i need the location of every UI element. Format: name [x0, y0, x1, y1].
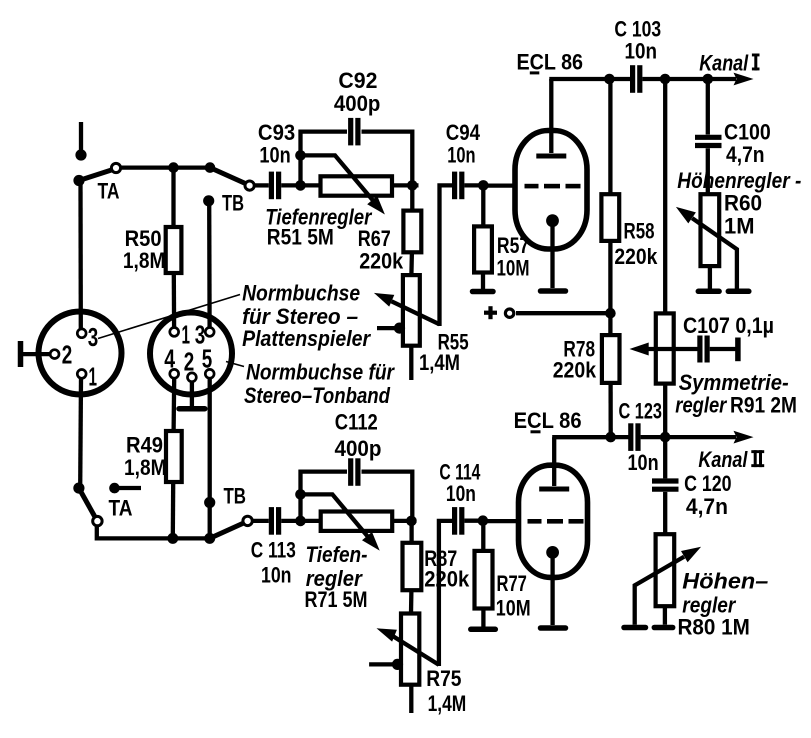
wire R50 to DIN2 pin1: [172, 273, 177, 327]
svg-text:R51 5M: R51 5M: [267, 225, 334, 250]
svg-text:10n: 10n: [261, 562, 292, 587]
node R78 bottom junction: [605, 432, 616, 443]
wire C107 right lead: [710, 347, 736, 351]
wire tap vertical to C114 corner: [439, 521, 454, 666]
ground R80 element: [654, 625, 672, 631]
svg-text:1,8M: 1,8M: [123, 248, 165, 273]
wire U1 anode lead: [549, 79, 553, 153]
wire S2b contact to C113: [252, 519, 269, 523]
capacitor C92: [351, 118, 358, 145]
svg-text:regler: regler: [675, 392, 727, 417]
svg-text:10n: 10n: [625, 39, 658, 64]
wire R55 wiper diagonal: [392, 301, 440, 324]
potentiometer R75 box: [401, 614, 419, 685]
svg-text:C92: C92: [338, 68, 377, 93]
capacitor C103: [633, 65, 640, 93]
wire R55 bottom lead: [409, 346, 413, 380]
wire R75 bottom lead: [409, 685, 413, 713]
wire R71 wiper: [304, 494, 368, 536]
wire switch arm S2a: [79, 488, 95, 517]
wire U1 grid dashes: [525, 184, 581, 189]
svg-text:Höhen–: Höhen–: [682, 569, 768, 594]
svg-text:ECL 86: ECL 86: [514, 408, 582, 433]
svg-text:Normbuchse: Normbuchse: [242, 281, 360, 306]
tube ECL86 U1 envelope: [515, 131, 587, 250]
wire R50 branch upper: [171, 168, 175, 227]
wire DIN2 pin4 to R49: [171, 378, 176, 431]
svg-text:TB: TB: [224, 484, 247, 509]
wire C92 top left: [299, 129, 348, 133]
svg-text:220k: 220k: [424, 567, 470, 592]
node S2a pivot dot: [73, 483, 84, 494]
wire bus to C123: [611, 435, 629, 439]
wire TB contact to DIN2 pin3: [207, 201, 212, 327]
arrow Kanal I: [734, 73, 754, 86]
svg-text:R67: R67: [358, 226, 391, 251]
wire node D to R87: [409, 521, 413, 543]
wire C112 top right: [362, 472, 413, 519]
arrow Kanal II: [734, 431, 754, 444]
node R91 line top: [660, 74, 671, 85]
svg-text:4,7n: 4,7n: [726, 142, 765, 167]
svg-text:1M: 1M: [724, 213, 755, 238]
ground R60 wiper: [728, 289, 749, 295]
svg-text:400p: 400p: [334, 91, 381, 116]
wire R80 wiper diagonal: [635, 557, 684, 625]
wire tap vertical to C94 corner: [440, 185, 454, 326]
wire grid node to R57: [481, 185, 485, 226]
node S2a contact circle: [93, 516, 102, 525]
potentiometer R51 box: [321, 176, 393, 195]
node DIN1 pin 3: [77, 329, 86, 338]
svg-text:1: 1: [182, 320, 191, 350]
svg-text:Stereo–Tonband: Stereo–Tonband: [244, 383, 391, 408]
wire main through R71 right: [392, 519, 417, 523]
resistor R67: [403, 211, 421, 253]
node R75 stub dot: [392, 659, 403, 670]
ground R80 wiper: [624, 625, 646, 631]
svg-text:220k: 220k: [614, 244, 658, 269]
svg-text:2: 2: [184, 346, 195, 376]
wire S1b contact to C93: [254, 183, 268, 187]
node R71 wiper tap: [295, 489, 306, 500]
svg-text:10M: 10M: [496, 596, 531, 621]
potentiometer R71 box: [321, 512, 393, 531]
wire TA arm to DIN1 pin3: [78, 180, 83, 329]
svg-text:Normbuchse für: Normbuchse für: [246, 360, 395, 385]
svg-text:3: 3: [88, 322, 99, 352]
svg-text:10n: 10n: [446, 481, 476, 506]
wire DIN2 pin5 down: [208, 378, 212, 538]
wire C100 upper lead: [706, 79, 710, 135]
svg-text:R60: R60: [724, 191, 762, 216]
wire switch arm S2b: [210, 523, 245, 539]
wire C120 upper lead: [663, 437, 667, 478]
node C main wire: [295, 516, 306, 527]
node D R71 output: [406, 516, 417, 527]
wire R58 upper lead: [608, 79, 612, 194]
ground DIN2: [179, 406, 205, 412]
tube ECL86 U2 envelope: [519, 465, 588, 577]
potentiometer R91 box: [656, 313, 674, 383]
node DIN2 pin 3: [205, 328, 214, 337]
svg-text:10n: 10n: [259, 143, 290, 168]
wire R77 to ground: [481, 609, 485, 627]
wire Kanal I lead: [708, 77, 736, 81]
wire top bus to C103: [609, 77, 631, 81]
wire main through R51 left: [301, 183, 322, 187]
svg-text:10M: 10M: [497, 255, 530, 280]
resistor R49: [166, 431, 182, 482]
resistor R87: [403, 543, 422, 590]
node grid tube2: [478, 515, 489, 526]
wire U1 anode bar: [536, 154, 566, 159]
node TB lower contact: [204, 497, 215, 508]
node DIN2 pin 1: [170, 328, 179, 337]
label ECL86 U2 C underline: [531, 430, 541, 433]
capacitor C113: [271, 507, 278, 535]
wire TA lower stub: [115, 486, 142, 490]
svg-text:1,4M: 1,4M: [428, 691, 467, 716]
node TA lower contact: [109, 483, 120, 494]
svg-text:10n: 10n: [628, 450, 659, 475]
svg-text:C100: C100: [724, 120, 771, 145]
svg-text:220k: 220k: [553, 357, 597, 382]
wire U2 anode lead: [552, 437, 556, 486]
node DIN2 pin 2: [188, 373, 197, 382]
node DIN1 pin 1: [77, 370, 86, 379]
ground U1 cathode: [541, 288, 566, 294]
wire TA upper stub: [79, 122, 83, 152]
svg-text:R49: R49: [126, 432, 163, 457]
capacitor C93: [271, 172, 278, 200]
wire DIN1 pin1 down: [78, 378, 83, 487]
wire C103 to Kanal I node: [642, 77, 707, 81]
svg-text:1: 1: [89, 362, 98, 392]
arrow R91 wiper head: [630, 343, 649, 356]
svg-text:ECL 86: ECL 86: [517, 50, 584, 75]
wire R87 to R75: [409, 590, 414, 613]
node grid tube1: [478, 180, 489, 191]
wire top bus channel 1: [121, 165, 210, 169]
arrow R75 wiper head: [377, 628, 397, 641]
wire plus terminal to junction: [516, 311, 610, 315]
arrow R60 wiper head: [676, 207, 696, 224]
wire R58 lower lead: [608, 241, 612, 335]
node S1a contact circle: [111, 163, 120, 172]
terminal C107 T-bar: [735, 338, 741, 362]
wire input to pin2: [22, 352, 50, 356]
wire grid node to R77: [481, 521, 485, 551]
node B R51 output: [407, 180, 418, 191]
label Kanal II numeral: [751, 450, 764, 467]
arrow R80 wiper head: [681, 547, 701, 562]
terminal input T-bar: [18, 341, 24, 367]
node R58 top junction: [604, 74, 615, 85]
node plus terminal circle: [505, 309, 513, 317]
node junction R50 top: [168, 162, 179, 173]
wire C112 left branch: [298, 470, 302, 521]
wire R60 wiper diagonal: [692, 218, 737, 288]
wire grid node to tube2: [483, 519, 520, 523]
wire U1 cathode lead: [550, 221, 554, 288]
capacitor C94: [455, 172, 462, 200]
wire R80 bottom stub: [663, 606, 667, 625]
wire U2 grid dashes: [528, 519, 584, 524]
wire C120 lower lead: [663, 492, 667, 534]
wire node B to R67: [410, 185, 414, 210]
potentiometer R80 box: [656, 534, 675, 606]
node U1 cathode: [546, 214, 559, 227]
ground R77: [471, 627, 496, 633]
capacitor C114: [455, 507, 462, 535]
wire grid node to tube1: [483, 183, 517, 187]
node U2 cathode: [546, 546, 559, 559]
svg-text:400p: 400p: [335, 436, 382, 461]
node DIN2 pin 5: [205, 369, 214, 378]
resistor R50: [166, 227, 182, 273]
resistor R78: [602, 335, 620, 383]
wire R49 to bottom bus: [171, 482, 176, 538]
wire main through R71 left: [301, 519, 322, 523]
svg-text:R75: R75: [426, 666, 461, 691]
wire DIN2 pin2 to ground: [190, 382, 194, 406]
ground R60 element: [698, 289, 719, 295]
svg-text:1,4M: 1,4M: [419, 350, 460, 375]
wire C100 lower lead: [706, 148, 710, 194]
svg-text:TA: TA: [98, 179, 120, 204]
wire R60 bottom stub: [708, 266, 712, 288]
wire C93 to node A: [281, 183, 300, 187]
wire R91 wiper to C107: [648, 347, 698, 351]
wire C92 left branch: [298, 130, 302, 186]
wire U2 anode bar: [539, 487, 569, 492]
node A main wire: [295, 180, 306, 191]
wire C112 top left: [299, 469, 348, 473]
svg-text:R80 1M: R80 1M: [678, 614, 750, 639]
wire R78 lower lead: [608, 383, 612, 437]
capacitor C107: [700, 336, 707, 363]
node R55 stub dot: [394, 323, 405, 334]
ground U2 cathode: [541, 625, 566, 631]
wire R51 wiper: [304, 155, 373, 200]
arrow R55 wiper head: [374, 293, 394, 307]
resistor R57: [474, 226, 492, 272]
potentiometer R60 box: [701, 194, 720, 266]
label ECL86 U1 C underline: [530, 71, 540, 74]
wire R75 wiper diagonal: [394, 637, 439, 665]
svg-text:Kanal: Kanal: [699, 50, 749, 75]
node TA upper contact: [75, 149, 86, 160]
connector DIN2 circle: [150, 313, 232, 395]
arrow R71 wiper head: [362, 532, 380, 551]
svg-text:4: 4: [164, 343, 175, 373]
svg-text:C 123: C 123: [619, 398, 663, 423]
capacitor C100: [695, 137, 722, 145]
svg-text:R77: R77: [497, 571, 527, 596]
wire C123 to Kanal II node: [641, 435, 736, 439]
node C100 tap: [703, 74, 714, 85]
wire C92 top right: [362, 132, 413, 183]
svg-text:Tiefen-: Tiefen-: [306, 542, 368, 567]
node junction S1b arm: [205, 162, 216, 173]
svg-text:Höhenregler -: Höhenregler -: [677, 168, 801, 193]
node TB upper contact: [203, 195, 214, 206]
wire R91 line lower: [663, 384, 667, 438]
wire main through R51 right: [392, 183, 419, 187]
svg-text:C107 0,1µ: C107 0,1µ: [683, 313, 774, 338]
svg-text:R91 2M: R91 2M: [730, 392, 797, 417]
svg-text:2: 2: [62, 340, 72, 370]
wire annotation line to Normbuchse: [98, 295, 240, 339]
potentiometer R55 box: [403, 275, 420, 346]
capacitor C120: [652, 481, 679, 489]
wire R67 to R55: [409, 252, 414, 275]
capacitor C112: [351, 458, 358, 486]
wire switch arm S1a: [79, 170, 113, 181]
node junction R49 bottom: [167, 533, 178, 544]
node C120 tap: [660, 432, 671, 443]
wire R55 left stub: [377, 326, 398, 330]
wire C94 to grid node: [464, 183, 483, 187]
node S1b contact circle: [245, 181, 254, 190]
connector DIN1 circle: [39, 312, 122, 395]
node DIN2 pin 4: [170, 369, 179, 378]
resistor R77: [475, 551, 493, 609]
wire switch arm S1b: [210, 168, 247, 184]
ground R57: [473, 289, 494, 295]
svg-text:5: 5: [202, 343, 213, 373]
capacitor C123: [631, 423, 638, 451]
svg-text:C112: C112: [335, 410, 378, 435]
resistor R58: [601, 194, 619, 241]
label plus: [484, 306, 497, 319]
wire U2 cathode lead: [550, 552, 554, 625]
wire U1 anode to top bus: [549, 77, 609, 81]
svg-text:C94: C94: [446, 120, 481, 145]
svg-text:220k: 220k: [359, 248, 404, 273]
wire bottom bus channel 2: [97, 526, 210, 539]
wire R75 left stub: [369, 662, 396, 666]
svg-text:Plattenspieler: Plattenspieler: [242, 326, 371, 351]
svg-text:Symmetrie-: Symmetrie-: [679, 370, 789, 395]
node plus supply junction: [605, 308, 616, 319]
svg-text:TB: TB: [222, 191, 244, 216]
wire R57 to ground: [481, 273, 485, 290]
label Kanal I numeral: [752, 54, 760, 71]
svg-text:C 120: C 120: [684, 471, 732, 496]
wire annotation line to Normbuchse fuer: [226, 362, 244, 367]
svg-text:R71 5M: R71 5M: [305, 587, 368, 612]
wire C114 to grid node: [464, 519, 483, 523]
svg-text:C 113: C 113: [251, 537, 296, 562]
svg-text:C93: C93: [258, 120, 295, 145]
node S1a pivot dot: [73, 175, 84, 186]
svg-text:R58: R58: [624, 219, 655, 244]
node junction S2b arm: [204, 533, 215, 544]
wire C113 to node C: [281, 519, 300, 523]
wire R91 line upper: [663, 79, 667, 313]
svg-text:10n: 10n: [447, 143, 475, 168]
svg-text:1,8M: 1,8M: [124, 455, 167, 480]
node DIN1 pin 2: [50, 350, 59, 359]
svg-text:4,7n: 4,7n: [686, 494, 728, 519]
arrow R51 wiper head: [367, 196, 385, 215]
svg-text:TA: TA: [109, 496, 133, 521]
wire U2 anode to Kanal II bus: [552, 435, 611, 439]
node S2b contact circle: [243, 516, 252, 525]
svg-text:Kanal: Kanal: [698, 447, 748, 472]
node R51 wiper tap: [295, 150, 306, 161]
